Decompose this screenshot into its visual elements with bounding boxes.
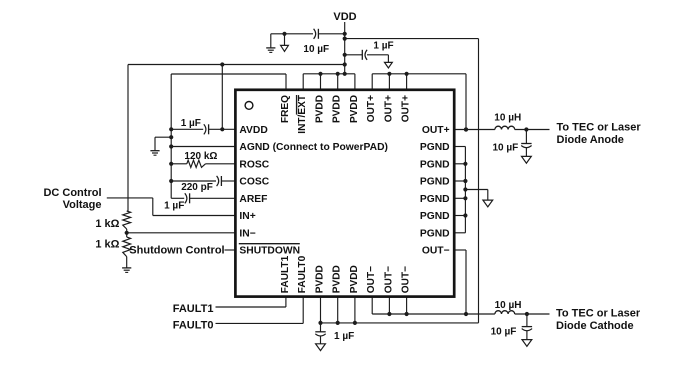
svg-text:Diode Cathode: Diode Cathode <box>556 320 634 332</box>
svg-text:OUT+: OUT+ <box>401 95 412 122</box>
svg-text:FAULT1: FAULT1 <box>173 303 214 315</box>
svg-text:PGND: PGND <box>420 228 450 239</box>
svg-text:DC Control: DC Control <box>43 187 101 199</box>
svg-text:1 µF: 1 µF <box>164 201 184 212</box>
svg-text:Shutdown Control: Shutdown Control <box>129 245 224 257</box>
svg-text:1 µF: 1 µF <box>181 118 201 129</box>
svg-text:PVDD: PVDD <box>332 95 343 123</box>
svg-text:OUT−: OUT− <box>383 266 394 293</box>
svg-text:10 µF: 10 µF <box>303 44 329 55</box>
svg-text:1 kΩ: 1 kΩ <box>95 218 119 230</box>
svg-text:OUT+: OUT+ <box>422 125 450 136</box>
svg-text:OUT−: OUT− <box>401 266 412 293</box>
svg-text:PVDD: PVDD <box>349 265 360 293</box>
svg-text:PGND: PGND <box>420 142 450 153</box>
svg-text:ROSC: ROSC <box>239 159 269 170</box>
svg-text:AGND (Connect to PowerPAD): AGND (Connect to PowerPAD) <box>239 142 388 153</box>
svg-text:IN−: IN− <box>239 228 255 239</box>
svg-text:INT/EXT: INT/EXT <box>297 94 308 134</box>
svg-text:OUT−: OUT− <box>422 246 450 257</box>
svg-text:PVDD: PVDD <box>315 265 326 293</box>
svg-text:220 pF: 220 pF <box>181 182 213 193</box>
svg-text:OUT+: OUT+ <box>366 95 377 122</box>
svg-text:PGND: PGND <box>420 159 450 170</box>
svg-text:OUT−: OUT− <box>366 266 377 293</box>
svg-text:FAULT1: FAULT1 <box>280 255 291 293</box>
svg-text:PGND: PGND <box>420 177 450 188</box>
svg-text:10 µH: 10 µH <box>495 300 522 311</box>
svg-text:10 µF: 10 µF <box>493 142 519 153</box>
svg-text:FREQ: FREQ <box>280 95 291 123</box>
svg-text:Voltage: Voltage <box>63 199 102 211</box>
svg-text:FAULT0: FAULT0 <box>173 320 214 332</box>
svg-text:10 µH: 10 µH <box>494 112 521 123</box>
svg-text:VDD: VDD <box>333 11 356 23</box>
svg-text:120 kΩ: 120 kΩ <box>184 151 217 162</box>
svg-text:PVDD: PVDD <box>332 265 343 293</box>
svg-text:To TEC or Laser: To TEC or Laser <box>557 122 642 134</box>
svg-text:10 µF: 10 µF <box>491 327 517 338</box>
svg-text:PVDD: PVDD <box>349 95 360 123</box>
svg-text:COSC: COSC <box>239 177 269 188</box>
svg-text:PVDD: PVDD <box>315 95 326 123</box>
svg-text:PGND: PGND <box>420 194 450 205</box>
svg-text:OUT+: OUT+ <box>383 95 394 122</box>
svg-text:IN+: IN+ <box>239 211 255 222</box>
svg-text:FAULT0: FAULT0 <box>297 255 308 293</box>
svg-text:Diode Anode: Diode Anode <box>557 134 624 146</box>
svg-text:PGND: PGND <box>420 211 450 222</box>
svg-text:1 µF: 1 µF <box>334 331 354 342</box>
svg-text:SHUTDOWN: SHUTDOWN <box>239 246 300 257</box>
svg-text:1 µF: 1 µF <box>373 41 393 52</box>
svg-text:AREF: AREF <box>239 194 267 205</box>
svg-text:1 kΩ: 1 kΩ <box>95 238 119 250</box>
svg-text:AVDD: AVDD <box>239 125 267 136</box>
svg-text:To TEC or Laser: To TEC or Laser <box>556 308 641 320</box>
